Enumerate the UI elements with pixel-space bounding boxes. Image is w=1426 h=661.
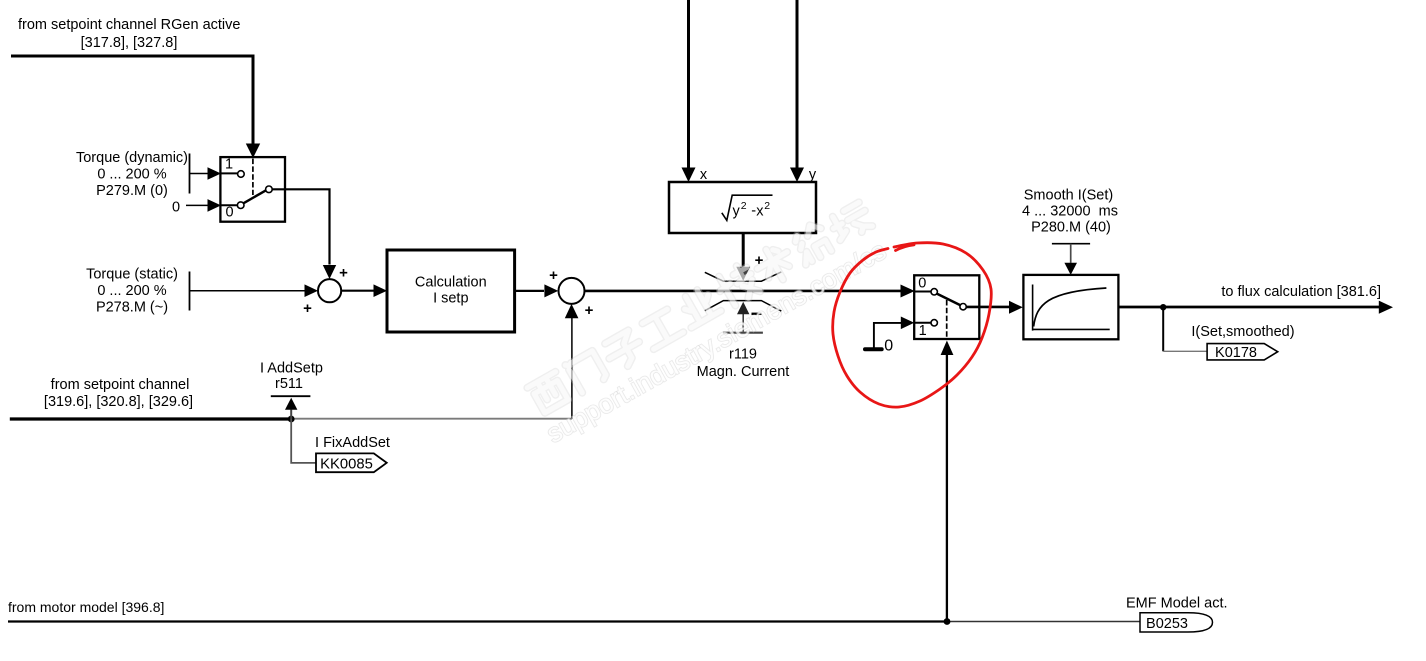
svg-text:I FixAddSet: I FixAddSet	[315, 435, 390, 451]
wire: EMF model act to S2 control from below	[941, 341, 954, 622]
terminal bar: torque dynamic input	[189, 154, 191, 194]
svg-text:I(Set,smoothed): I(Set,smoothed)	[1191, 324, 1294, 340]
svg-text:0: 0	[225, 205, 233, 221]
label: Smooth I(Set) P280	[1022, 188, 1118, 236]
S2 pin 0 stub wire	[915, 291, 931, 293]
label: from setpoint channel	[44, 377, 193, 410]
switch S1 (torque selection)	[220, 157, 285, 222]
wire: S2 output to smoothing block	[966, 301, 1023, 314]
wire: x input from top into sqrt block	[682, 0, 696, 182]
wire: summing junction 1 to calculation block	[341, 284, 387, 297]
S1 pin 1 stub wire	[221, 172, 238, 174]
wire: junction down to KK0085 connector	[291, 419, 316, 463]
label: minus sign lower limit	[752, 313, 762, 315]
svg-text:0 ... 200 %: 0 ... 200 %	[97, 283, 166, 299]
wire: I AddSetp into summing junction 2 from below	[565, 304, 579, 419]
wire: RGen active to switch S1 control input	[11, 56, 260, 158]
block U3: smoothing (PT1 filter)	[1023, 275, 1118, 339]
label: r119 Magn. Current	[697, 347, 790, 381]
wire: smoothing output to flux calculation	[1118, 301, 1393, 314]
watermark	[527, 202, 891, 448]
connector B0253	[1140, 613, 1213, 632]
S2 output contact	[960, 304, 966, 310]
S2 control dashed line	[946, 300, 948, 338]
wire: junction down to K0178 connector	[1163, 307, 1207, 351]
S1 output contact	[266, 186, 273, 193]
svg-text:Smooth I(Set): Smooth I(Set)	[1024, 188, 1113, 204]
limiter variable limit bar	[723, 332, 763, 334]
S1 pin 0 stub wire	[221, 204, 237, 206]
svg-text:0: 0	[884, 338, 893, 355]
summing junction 1	[318, 279, 341, 302]
svg-text:P278.M (~): P278.M (~)	[96, 300, 168, 316]
label: Torque (dynamic) P279	[76, 150, 188, 199]
svg-text:from motor model [396.8]: from motor model [396.8]	[8, 599, 164, 615]
wire: torque dynamic to S1 input 1	[190, 167, 222, 180]
S1 control dashed line	[252, 159, 254, 195]
S1 contact pin 1	[238, 171, 245, 178]
S1 lever	[243, 190, 265, 203]
svg-text:+: +	[303, 300, 312, 317]
S1 contact pin 0	[237, 202, 244, 209]
wire: setpoint channel to summing junction 2 (thin)	[291, 418, 572, 420]
svg-text:B0253: B0253	[1146, 616, 1188, 632]
svg-text:+: +	[585, 302, 594, 319]
summing junction 2	[559, 278, 585, 304]
S2 contact pin 0	[931, 289, 937, 295]
svg-text:0: 0	[918, 276, 926, 292]
block U2: sqrt(y^2 - x^2)	[669, 182, 816, 233]
svg-text:y: y	[809, 167, 817, 183]
svg-text:4 ... 32000 ms: 4 ... 32000 ms	[1022, 204, 1118, 220]
junction: smoothed output node	[1160, 304, 1166, 310]
svg-text:to flux calculation [381.6]: to flux calculation [381.6]	[1221, 284, 1381, 300]
node: from setpoint channel RGen active (label)	[18, 17, 240, 51]
svg-text:from setpoint channel: from setpoint channel	[51, 377, 190, 393]
svg-text:Torque (dynamic): Torque (dynamic)	[76, 150, 188, 166]
svg-text:[317.8], [327.8]: [317.8], [327.8]	[81, 35, 178, 51]
parameter T symbol into smoothing block	[1052, 244, 1090, 275]
connector K0178	[1207, 344, 1278, 361]
wire: sqrt output down to limiter	[736, 233, 750, 281]
limiter upper clamp	[705, 272, 782, 281]
svg-text:0: 0	[172, 200, 180, 216]
connector KK0085	[316, 453, 387, 472]
svg-text:0 ... 200 %: 0 ... 200 %	[97, 167, 166, 183]
wire: S1 output to summing junction 1	[272, 189, 336, 279]
wire: y input from top into sqrt block	[790, 0, 804, 182]
svg-text:KK0085: KK0085	[320, 457, 373, 473]
wire: summing junction 2 through limiter to switch S2	[585, 285, 915, 298]
label: Torque (static) P278	[86, 267, 178, 316]
svg-text:+: +	[549, 267, 558, 284]
S2 lever	[937, 294, 961, 306]
block U1: Calculation I setp	[387, 250, 515, 332]
limiter lower clamp	[705, 301, 782, 312]
svg-text:I setp: I setp	[433, 291, 468, 307]
S2 contact pin 1	[931, 320, 937, 326]
svg-text:2: 2	[764, 200, 770, 212]
svg-text:r511: r511	[275, 376, 303, 392]
svg-text:Calculation: Calculation	[415, 275, 487, 291]
svg-text:Torque (static): Torque (static)	[86, 267, 178, 283]
switch S2 (EMF model selection)	[914, 275, 979, 339]
svg-text:y: y	[733, 204, 741, 220]
svg-text:Magn. Current: Magn. Current	[697, 364, 790, 380]
svg-text:[319.6], [320.8], [329.6]: [319.6], [320.8], [329.6]	[44, 394, 193, 410]
wire: motor model line to B0253	[947, 621, 1141, 623]
junction: I AddSetp node	[288, 416, 295, 423]
svg-text:+: +	[339, 265, 348, 282]
ground: constant 0 input to switch S2	[865, 317, 914, 355]
svg-text:2: 2	[741, 200, 747, 212]
wire: calculation block to summing junction 2	[515, 284, 559, 297]
svg-text:EMF Model act.: EMF Model act.	[1126, 596, 1228, 612]
svg-text:I AddSetp: I AddSetp	[260, 361, 323, 377]
indicator r511 I AddSetp	[260, 361, 323, 420]
svg-text:x: x	[756, 204, 764, 220]
svg-text:x: x	[700, 167, 708, 183]
wire: from motor model line	[8, 620, 947, 622]
S2 pin 1 stub wire	[915, 322, 931, 324]
wire: 0 to S1 input 0	[186, 199, 221, 212]
limiter lower limit arrow	[737, 302, 749, 332]
red annotation circle around switch S2	[833, 243, 992, 407]
svg-text:from setpoint channel RGen act: from setpoint channel RGen active	[18, 17, 240, 33]
svg-text:P279.M (0): P279.M (0)	[96, 183, 168, 199]
svg-text:P280.M (40): P280.M (40)	[1031, 220, 1111, 236]
junction: motor model / S2 control node	[944, 618, 951, 625]
svg-text:K0178: K0178	[1215, 345, 1257, 361]
wire: from setpoint channel (thick)	[10, 417, 291, 420]
wire: torque static to summing junction 1	[190, 284, 319, 297]
terminal bar: torque static input	[189, 272, 191, 311]
svg-text:1: 1	[919, 323, 927, 339]
svg-text:1: 1	[225, 157, 233, 173]
